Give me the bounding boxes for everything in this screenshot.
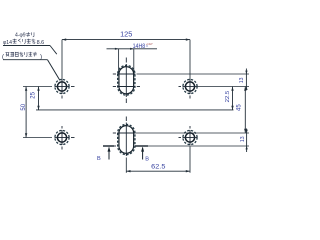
- slot S1 vertical centerline: [125, 58, 127, 104]
- dimension 45 arrows: [244, 87, 246, 91]
- dimension 14H8 line: [107, 48, 158, 50]
- dimension 125 line: [62, 39, 190, 41]
- hole U-BL counterbore dashed: [55, 130, 69, 144]
- slot S2 inner bottom arc: [119, 146, 134, 153]
- dimension 13 bottom line: [246, 129, 248, 153]
- dimension 50 arrows: [25, 87, 27, 91]
- svg-text:B: B: [97, 156, 101, 162]
- svg-text:25: 25: [31, 91, 37, 98]
- dimension 22.5 line: [232, 87, 234, 110]
- extension line right y86.5: [198, 86, 250, 88]
- mid extension line y110: [36, 109, 234, 111]
- hole U-BL crosshair: [55, 126, 75, 150]
- extension line left y137.5: [23, 137, 52, 139]
- slot S2 inner right edge: [133, 133, 135, 146]
- dimension 13 top line: [245, 69, 247, 91]
- slot S2 upper centerline: [113, 132, 136, 134]
- extension line right y133: [136, 132, 250, 134]
- dimension 62.5 arrows: [126, 170, 130, 172]
- svg-text:13: 13: [239, 77, 245, 83]
- section arrow B right: [142, 148, 144, 160]
- svg-text:B: B: [145, 157, 149, 163]
- svg-text:125: 125: [120, 32, 132, 39]
- svg-text:8.6: 8.6: [37, 40, 45, 46]
- dimension 14H8 arrow right: [130, 48, 134, 50]
- hole U-TL counterbore dashed: [55, 79, 69, 93]
- svg-text:62.5: 62.5: [151, 164, 166, 171]
- slot S2 inner left edge: [118, 133, 120, 146]
- slot S2 counterbore dashed outline: [118, 124, 135, 154]
- dimension 62.5 extension left: [125, 158, 127, 173]
- svg-text:50: 50: [21, 103, 27, 110]
- hole U-TR crosshair: [179, 79, 198, 99]
- leader line: [48, 60, 60, 80]
- dimension 62.5 line: [126, 170, 190, 172]
- slot S2 lower centerline dash: [113, 145, 116, 147]
- dimension 22.5 arrows: [231, 87, 233, 91]
- slot S1 lower centerline: [113, 86, 140, 88]
- dimension 14H8 extension left: [118, 49, 120, 74]
- hole U-BR crosshair: [179, 126, 198, 145]
- hole U-TL circle: [57, 82, 66, 91]
- dimension 50 line: [25, 87, 27, 138]
- slot S1 inner left edge: [118, 74, 120, 87]
- hole U-TL crosshair: [55, 79, 75, 99]
- extension line right y74: [137, 73, 250, 75]
- note underline 2: [3, 59, 48, 61]
- hole U-BL circle: [57, 133, 66, 142]
- leader stub: [50, 46, 57, 55]
- svg-text:4-φ9: 4-φ9: [15, 33, 26, 39]
- extension line right y146: [148, 145, 249, 147]
- section B-B cutting line left: [103, 145, 114, 147]
- svg-text:φ14: φ14: [3, 40, 12, 46]
- dimension 62.5 extension right: [189, 147, 191, 173]
- dimension 125 arrow right: [186, 38, 190, 40]
- slot S1 counterbore dashed outline: [118, 65, 135, 95]
- section arrow B left: [108, 148, 110, 160]
- svg-text:45: 45: [237, 104, 243, 111]
- dimension 13 top arrows: [245, 71, 247, 74]
- dimension 125 extension right: [189, 40, 191, 80]
- svg-text:13: 13: [240, 136, 246, 142]
- dimension 125 arrow left: [62, 38, 66, 40]
- svg-text:22.5: 22.5: [225, 91, 231, 103]
- slot S1 inner right edge: [133, 74, 135, 87]
- svg-text:14H8: 14H8: [133, 43, 146, 50]
- dimension 14H8 arrow left: [115, 48, 119, 50]
- dimension 125 extension left: [61, 40, 63, 80]
- slot S1 upper centerline: [113, 73, 136, 75]
- extension line left y86.5: [23, 86, 52, 88]
- hole U-TR circle: [185, 82, 194, 91]
- note underline 1: [3, 45, 50, 47]
- dimension 25 line: [38, 87, 40, 110]
- dimension 45 line: [244, 87, 246, 134]
- slot S2 inner top arc: [119, 126, 134, 133]
- dimension 25 arrows: [37, 87, 39, 91]
- dimension 14H8 extension right: [133, 49, 135, 74]
- slot S2 vertical centerline: [125, 117, 127, 157]
- dimension 13 bottom arrows: [246, 130, 248, 133]
- slot S1 inner top arc: [119, 67, 134, 74]
- hole U-TR counterbore dashed: [183, 79, 197, 93]
- slot S1 inner bottom arc: [119, 87, 134, 94]
- hole U-BR counterbore dashed: [183, 130, 197, 144]
- section B-B cutting line right: [135, 145, 148, 147]
- hole U-BR circle: [185, 133, 194, 142]
